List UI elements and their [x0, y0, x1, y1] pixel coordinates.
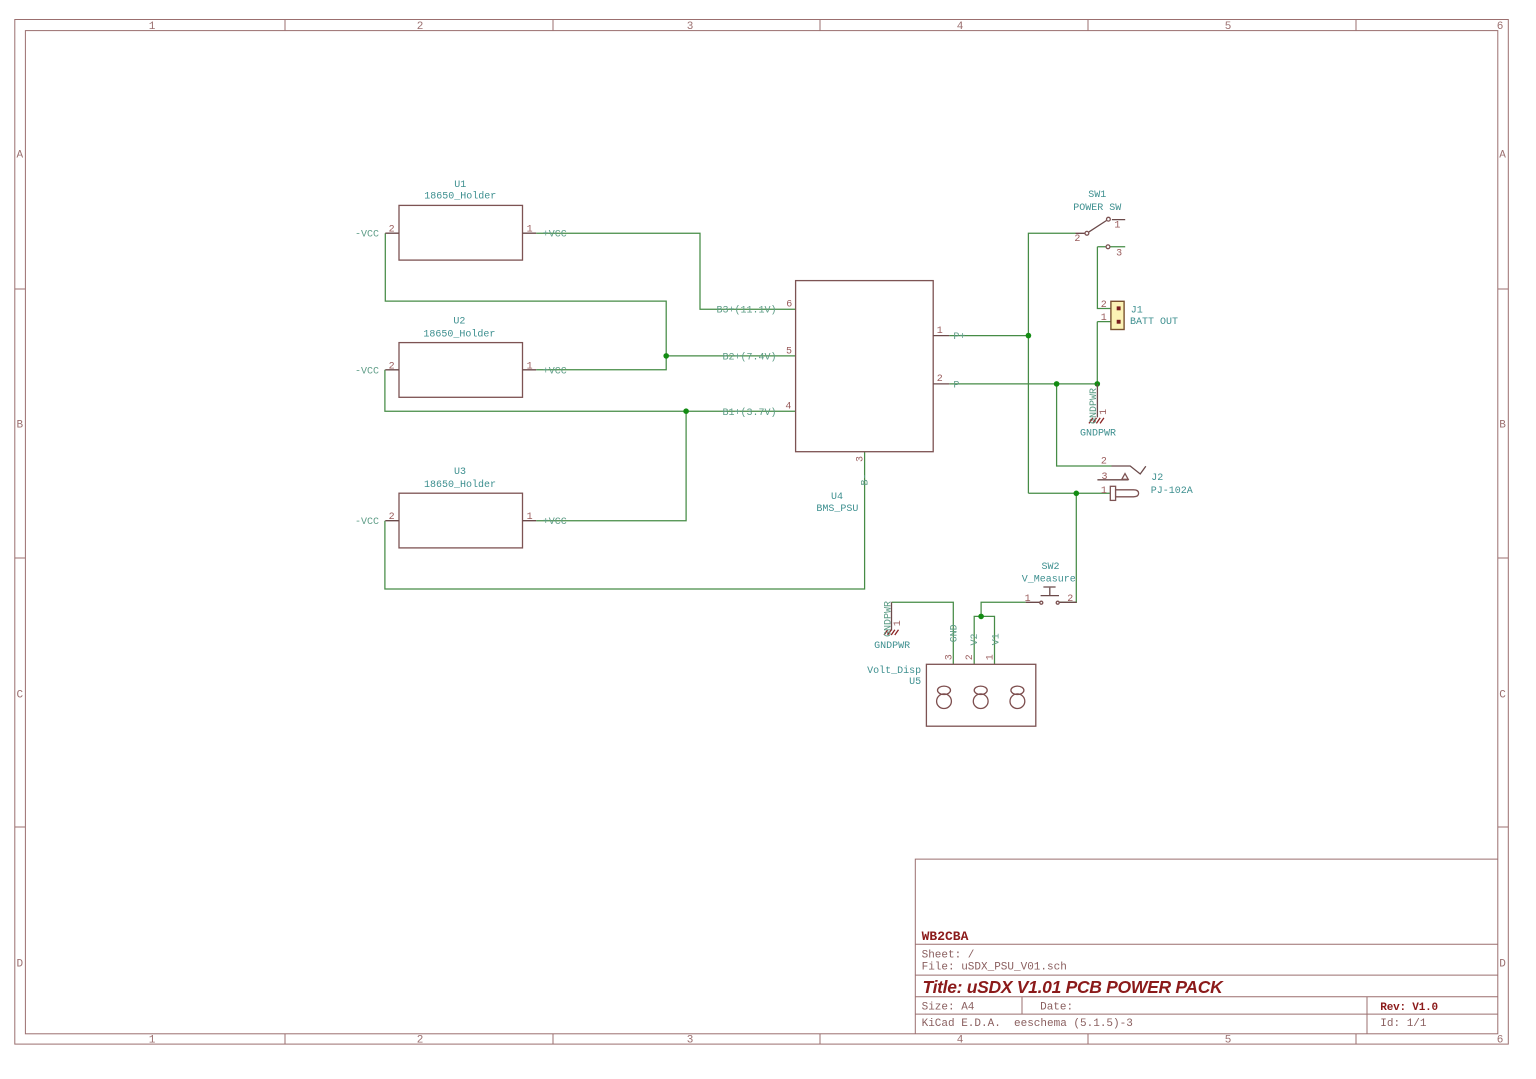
svg-text:4: 4	[957, 21, 964, 33]
svg-text:2: 2	[389, 361, 395, 372]
svg-text:B1+(3.7V): B1+(3.7V)	[722, 407, 776, 419]
svg-text:Rev: V1.0: Rev: V1.0	[1380, 1002, 1438, 1014]
svg-text:1: 1	[527, 225, 533, 236]
svg-text:2: 2	[1101, 300, 1107, 311]
svg-text:WB2CBA: WB2CBA	[922, 929, 969, 944]
svg-text:1: 1	[527, 361, 533, 372]
svg-text:3: 3	[1101, 472, 1107, 483]
svg-text:J2: J2	[1151, 473, 1163, 484]
svg-text:5: 5	[786, 346, 792, 357]
svg-text:D: D	[1499, 959, 1506, 971]
svg-text:GNDPWR: GNDPWR	[1089, 388, 1100, 424]
svg-text:4: 4	[957, 1035, 964, 1047]
svg-text:-VCC: -VCC	[355, 366, 379, 377]
svg-text:1: 1	[893, 620, 904, 626]
svg-text:+VCC: +VCC	[543, 366, 567, 377]
svg-text:U4: U4	[831, 492, 843, 503]
svg-text:A: A	[16, 150, 23, 162]
svg-text:18650_Holder: 18650_Holder	[423, 329, 495, 341]
svg-text:D: D	[16, 959, 23, 971]
svg-text:6: 6	[786, 299, 792, 310]
svg-text:+VCC: +VCC	[543, 517, 567, 528]
svg-text:V1: V1	[992, 633, 1003, 645]
svg-text:18650_Holder: 18650_Holder	[424, 479, 496, 491]
svg-text:1: 1	[149, 21, 156, 33]
svg-text:B: B	[1499, 420, 1506, 432]
svg-text:3: 3	[1116, 248, 1122, 259]
svg-text:BATT OUT: BATT OUT	[1130, 317, 1178, 328]
svg-text:4: 4	[785, 401, 791, 412]
svg-text:U3: U3	[454, 467, 466, 478]
svg-text:U1: U1	[454, 180, 466, 191]
svg-text:B2+(7.4V): B2+(7.4V)	[722, 352, 776, 364]
svg-text:GNDPWR: GNDPWR	[874, 641, 910, 652]
svg-text:6: 6	[1497, 1035, 1504, 1047]
svg-text:BMS_PSU: BMS_PSU	[816, 504, 858, 515]
svg-text:P: P	[953, 380, 959, 391]
svg-text:1: 1	[1101, 486, 1107, 497]
svg-text:SW2: SW2	[1041, 562, 1059, 573]
svg-text:GNDPWR: GNDPWR	[883, 601, 894, 637]
svg-text:+VCC: +VCC	[543, 230, 567, 241]
svg-text:File: uSDX_PSU_V01.sch: File: uSDX_PSU_V01.sch	[922, 961, 1067, 973]
svg-text:2: 2	[417, 1035, 424, 1047]
svg-text:Date:: Date:	[1040, 1002, 1073, 1014]
svg-text:1: 1	[986, 654, 997, 660]
svg-text:U2: U2	[453, 317, 465, 328]
svg-text:1: 1	[527, 512, 533, 523]
svg-text:18650_Holder: 18650_Holder	[424, 191, 496, 203]
svg-text:2: 2	[417, 21, 424, 33]
svg-text:V_Measure: V_Measure	[1022, 575, 1076, 586]
svg-text:5: 5	[1225, 1035, 1232, 1047]
svg-text:Sheet: /: Sheet: /	[922, 950, 975, 962]
svg-text:SW1: SW1	[1088, 190, 1106, 201]
svg-text:POWER SW: POWER SW	[1073, 203, 1121, 214]
svg-text:1: 1	[1101, 313, 1107, 324]
svg-text:P+: P+	[953, 332, 965, 343]
svg-text:2: 2	[389, 512, 395, 523]
svg-text:2: 2	[1101, 457, 1107, 468]
svg-text:GND: GND	[950, 624, 961, 642]
svg-text:2: 2	[937, 374, 943, 385]
svg-text:Id: 1/1: Id: 1/1	[1380, 1018, 1427, 1030]
svg-text:B-: B-	[860, 473, 871, 485]
svg-text:1: 1	[1025, 594, 1031, 605]
svg-text:B: B	[16, 420, 23, 432]
svg-text:Title: uSDX V1.01 PCB POWER PA: Title: uSDX V1.01 PCB POWER PACK	[923, 977, 1225, 997]
svg-text:B3+(11.1V): B3+(11.1V)	[716, 305, 776, 317]
svg-text:PJ-102A: PJ-102A	[1151, 486, 1193, 497]
svg-text:-VCC: -VCC	[355, 230, 379, 241]
svg-text:-VCC: -VCC	[355, 517, 379, 528]
svg-text:C: C	[1499, 690, 1506, 702]
svg-text:3: 3	[687, 1035, 694, 1047]
svg-text:J1: J1	[1131, 306, 1143, 317]
svg-text:A: A	[1499, 150, 1506, 162]
svg-text:2: 2	[1074, 234, 1080, 245]
svg-text:C: C	[16, 690, 23, 702]
svg-text:3: 3	[945, 654, 956, 660]
svg-text:Size: A4: Size: A4	[922, 1002, 975, 1014]
svg-text:5: 5	[1225, 21, 1232, 33]
svg-text:1: 1	[149, 1035, 156, 1047]
svg-text:6: 6	[1497, 21, 1504, 33]
svg-text:1: 1	[1114, 221, 1120, 232]
svg-text:1: 1	[1099, 409, 1110, 415]
svg-text:2: 2	[1067, 594, 1073, 605]
svg-text:3: 3	[855, 456, 866, 462]
svg-text:2: 2	[389, 225, 395, 236]
svg-text:GNDPWR: GNDPWR	[1080, 428, 1116, 439]
svg-text:U5: U5	[909, 677, 921, 688]
svg-text:KiCad E.D.A. eeschema (5.1.5): KiCad E.D.A. eeschema (5.1.5)-3	[922, 1018, 1133, 1030]
svg-text:V2: V2	[970, 633, 981, 645]
svg-text:2: 2	[965, 654, 976, 660]
svg-text:Volt_Disp: Volt_Disp	[867, 665, 921, 677]
svg-text:1: 1	[937, 326, 943, 337]
svg-text:3: 3	[687, 21, 694, 33]
